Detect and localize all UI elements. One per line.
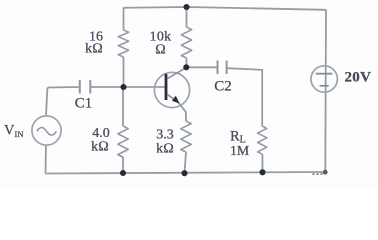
node ground RL [259,169,265,175]
svg-text:C2: C2 [214,79,232,95]
wire divider rail upper (16k leads) [123,8,125,31]
node ground 4k [120,170,126,176]
wire Vin bottom lead [45,145,48,174]
svg-text:VIN: VIN [4,122,23,139]
wire emitter to 3.3k [179,103,186,121]
svg-text:kΩ: kΩ [91,139,109,154]
svg-text:kΩ: kΩ [85,42,103,57]
wire C1 left [48,86,80,89]
wire C1 right to base [91,86,165,88]
wire 10k leads [186,7,188,28]
wire RL bottom lead [261,154,263,173]
speck marks on bottom wire [313,173,315,175]
wire Vin top lead [46,88,48,117]
node base junction [120,84,126,90]
node top rail junction [183,4,189,10]
wire C2 right to RL corner [227,68,262,126]
resistor 4.0k [118,126,128,157]
svg-text:kΩ: kΩ [156,141,174,156]
wire 3.3k bottom lead [185,152,187,173]
wire bottom rail [46,172,326,174]
svg-text:Ω: Ω [155,43,166,58]
svg-text:C1: C1 [75,96,93,112]
node collector junction [183,64,189,70]
wire collector node to C2 [187,66,218,68]
capacitor C2 [218,61,227,75]
svg-text:1M: 1M [230,143,249,158]
source Vin [32,116,61,145]
resistor 16k [118,30,128,57]
resistor 3.3k [181,121,191,152]
node ground 3.3k [181,170,187,176]
resistor RL 1M [258,126,267,154]
wire divider rail lower (4k leads) [122,87,124,126]
transistor Q1 [154,68,189,108]
wire right rail [324,10,327,173]
capacitor C1 [80,80,91,94]
resistor 10k [181,27,191,58]
svg-text:20V: 20V [345,69,372,85]
wire top rail [124,7,327,10]
node bottom-right corner blob [323,170,328,175]
source 20V [311,66,337,92]
